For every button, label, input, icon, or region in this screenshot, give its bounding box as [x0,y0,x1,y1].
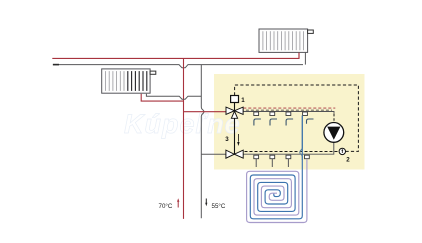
svg-text:55°C: 55°C [212,203,226,210]
svg-text:1: 1 [241,97,245,104]
wire: top radiator return drop [304,53,306,65]
bottom manifold pipe solid [243,142,334,154]
return flow arrow down [205,199,207,204]
floor loop supply pipe with jump at bottom manifold [300,116,303,161]
wire: return into bottom valve [201,153,226,155]
left radiator [102,69,156,93]
bottom valve [226,150,243,158]
vertical pipe between valves [234,119,236,155]
yellow mixing-unit panel [214,74,365,170]
flow arrow down beside bypass [237,134,239,142]
wire: main return line with jump over riser [53,65,303,68]
dashed from sensor to rect [346,150,359,152]
wire: main supply line 70C [52,53,299,59]
wire: gray return drop 55C with s-jump over red branch [201,65,204,219]
black dashed along top manifold [243,109,332,111]
svg-text:Kúpeľne: Kúpeľne [124,109,241,139]
top manifold taps [254,112,308,116]
wire: red branch to 3-way valve [184,111,227,113]
svg-text:2: 2 [346,157,350,164]
red dashed after valve [243,107,335,109]
3-way valve [226,107,243,118]
svg-text:70°C: 70°C [159,203,173,210]
tap stems [256,159,288,167]
loop brackets [254,119,314,126]
sensor circle 2 [339,148,345,154]
supply flow arrow up [177,201,179,208]
wire: red branch to left radiator [141,94,183,101]
bottom manifold taps [254,155,309,159]
top radiator connections [298,53,300,59]
top radiator [259,29,313,52]
coil spiral blue [250,116,302,219]
wire: left radiator return with jump [146,94,201,99]
svg-text:3: 3 [225,136,229,143]
stem actuator to valve [234,103,236,111]
wire: red riser 70C [183,58,185,219]
actuator square 1 [231,96,239,103]
bottom manifold dashed control line [245,151,340,153]
top manifold pipe solid [243,112,334,114]
pump P [324,122,344,142]
control dashed rectangle [235,85,359,151]
